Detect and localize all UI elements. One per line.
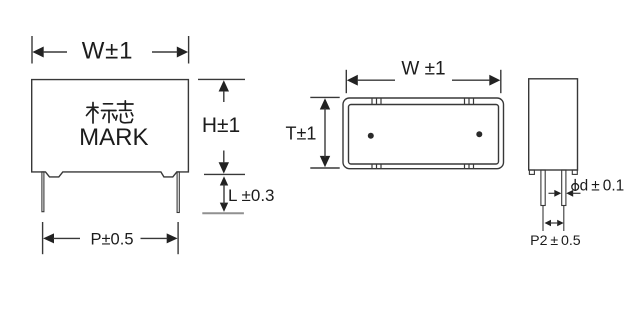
top view: mold marks top-right bbox=[465, 98, 474, 105]
svg-text:W±1: W±1 bbox=[82, 37, 134, 64]
front view: dimension P arrow right bbox=[141, 233, 178, 243]
front view: dimension L arrow (double headed) bbox=[220, 176, 228, 212]
front view: lead right bbox=[177, 172, 179, 213]
top view: dimension T tick top bbox=[310, 96, 339, 98]
front view: dimension H tick bottom bbox=[204, 173, 245, 175]
front view: marking text 标志 (drawn strokes) bbox=[87, 103, 117, 124]
front view: dimension W tick right bbox=[188, 36, 190, 64]
top view: mold marks bottom-left bbox=[372, 164, 381, 169]
svg-text:H±1: H±1 bbox=[202, 114, 240, 137]
front view: dimension P extension line right bbox=[177, 222, 179, 254]
front view: dimension H arrow down bbox=[219, 151, 229, 174]
side view: lead right (thick part) bbox=[562, 170, 566, 206]
side view: dimension d label phi symbol bbox=[572, 179, 579, 191]
svg-text:P±0.5: P±0.5 bbox=[91, 230, 134, 248]
front view: lead left bbox=[42, 172, 44, 212]
svg-text:L ±0.3: L ±0.3 bbox=[228, 186, 275, 205]
svg-text:T±1: T±1 bbox=[286, 124, 317, 144]
front view: dimension H tick top bbox=[198, 78, 245, 80]
side view: dimension d arrow pointing left bbox=[566, 190, 580, 197]
top view: dimension W tick right bbox=[500, 70, 502, 93]
top view: dimension T arrow (double headed) bbox=[320, 98, 330, 167]
front view: dimension L bottom tick (gray) bbox=[202, 212, 244, 214]
side view: lead left thin extension bbox=[542, 206, 544, 232]
svg-text:W ±1: W ±1 bbox=[401, 59, 445, 80]
svg-text:MARK: MARK bbox=[79, 124, 148, 151]
top view: mold marks bottom-right bbox=[465, 164, 474, 169]
side view: standoff foot right bbox=[572, 170, 577, 174]
top view: inner case outline bbox=[349, 105, 499, 165]
side view: capacitor body outline bbox=[529, 79, 578, 170]
svg-text:P2 ± 0.5: P2 ± 0.5 bbox=[530, 233, 581, 249]
side view: dimension P2 arrow (double headed) bbox=[545, 220, 564, 226]
top view: lead dot left bbox=[368, 133, 374, 139]
top view: dimension W tick left bbox=[345, 70, 347, 93]
top view: lead dot right bbox=[476, 131, 482, 137]
top view: dimension W arrow left bbox=[347, 75, 395, 86]
side view: lead right thin extension bbox=[563, 206, 565, 232]
svg-text:d ± 0.1: d ± 0.1 bbox=[580, 178, 625, 195]
front view: dimension W arrow left bbox=[32, 47, 67, 58]
side view: lead left (thick part) bbox=[541, 170, 545, 206]
top view: outer case outline (rounded) bbox=[343, 98, 504, 169]
side view: dimension d arrow pointing right bbox=[549, 190, 562, 197]
top view: mold marks top-left bbox=[372, 98, 381, 105]
top view: dimension W arrow right bbox=[452, 75, 500, 86]
front view: dimension W tick left bbox=[31, 36, 33, 64]
front view: capacitor body outline bbox=[32, 80, 189, 177]
front view: dimension P arrow left bbox=[43, 233, 80, 243]
front view: dimension P extension line left bbox=[42, 222, 44, 254]
front view: dimension H arrow up bbox=[219, 80, 229, 102]
front view: dimension W arrow right bbox=[152, 47, 188, 58]
side view: standoff foot left bbox=[529, 170, 534, 174]
front view: marking text 志 (drawn strokes) bbox=[116, 101, 133, 123]
top view: dimension T tick bottom bbox=[310, 167, 339, 169]
